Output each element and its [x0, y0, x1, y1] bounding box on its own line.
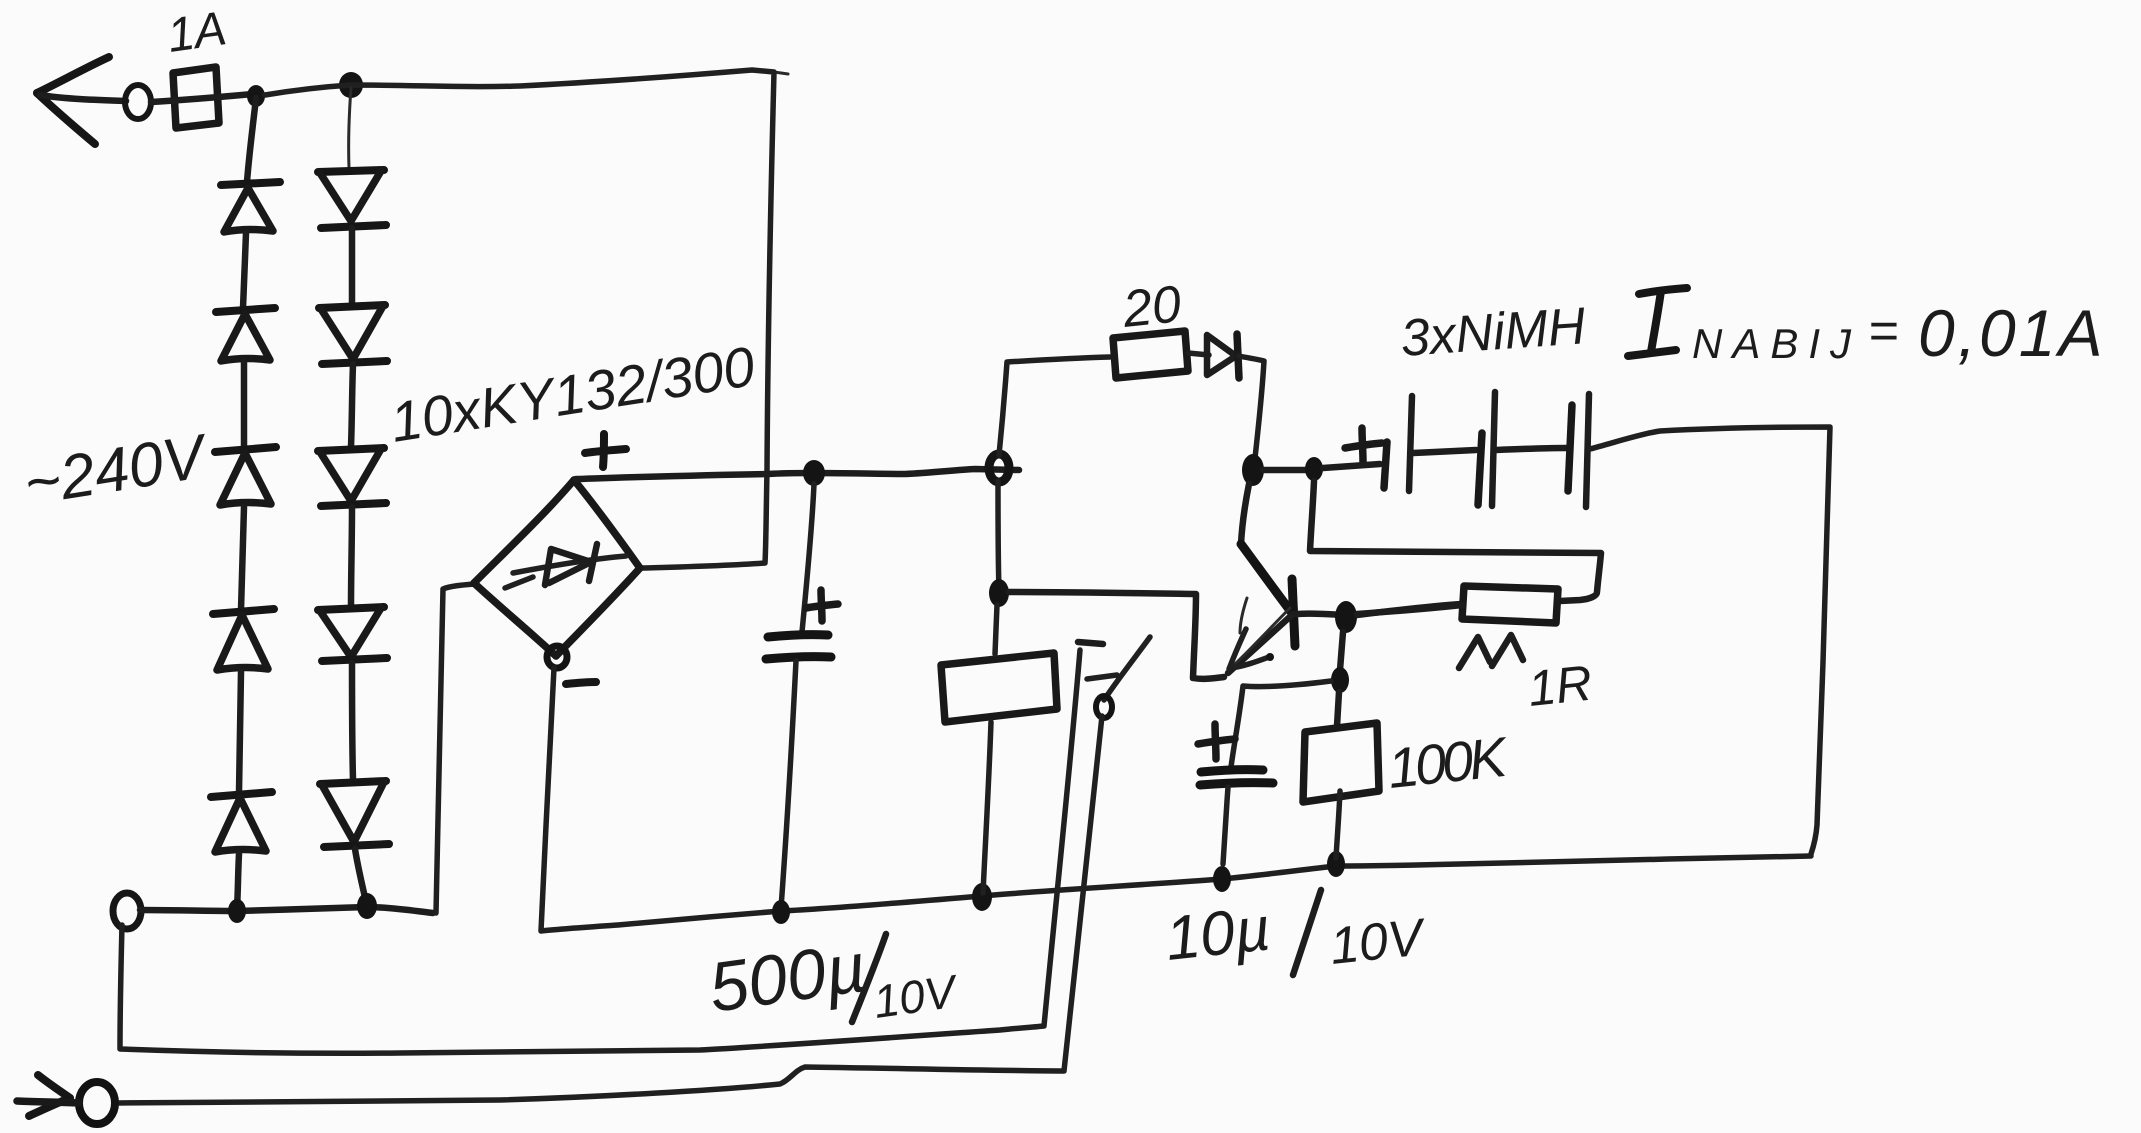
wire resistor to diode [1188, 353, 1209, 355]
resistor R2 11R [1357, 586, 1558, 623]
label - (bridge output) [566, 682, 596, 684]
terminal X3 (circle bottom-left) [79, 1082, 115, 1124]
node F (junction to 20-ohm loop and relay) [989, 454, 1009, 482]
diode D10 (right string) [320, 663, 389, 847]
wire bridge left vertex down to bottom wire [436, 584, 474, 913]
node B (junction top of right diode string) [339, 72, 363, 98]
svg-text:10µ: 10µ [1162, 894, 1273, 974]
wire base to node N [1297, 614, 1342, 615]
wire battery to right side loop [1590, 427, 1830, 854]
diode D8 (right string) [318, 364, 386, 506]
wire node N down to node O [1340, 632, 1343, 670]
diode D2 (left string) [216, 233, 275, 361]
diode D9 (right string) [318, 507, 387, 661]
svg-text:100K: 100K [1385, 725, 1512, 800]
wire relay branch down from node F [998, 481, 999, 590]
diode D5 (left string) [211, 672, 272, 852]
svg-text:1A: 1A [164, 2, 230, 63]
terminal X2 (circle bottom of diode strings) [113, 893, 141, 929]
terminal arrow top-left [37, 57, 126, 144]
diode D1 (left string) [221, 98, 280, 232]
label + (C1) [806, 590, 838, 621]
svg-text:NABIJ: NABIJ [1692, 320, 1861, 367]
capacitor C2 10u/10V [1200, 770, 1273, 864]
wire node O left to C2 [1231, 681, 1331, 767]
node H (battery plus junction) [1305, 457, 1323, 481]
wire DC+ rail from bridge to first junctions [576, 469, 1019, 479]
wire bottom line 1 (from terminal X2 down and right to switch) [120, 650, 1080, 1053]
switch S1 small dash [1087, 675, 1117, 679]
wire corner overshoot spur [774, 72, 788, 74]
wire D10 to bottom node [355, 849, 366, 902]
node J (relay minus on rail) [972, 883, 992, 911]
battery cell B3 [1496, 394, 1589, 507]
wire diode to right vertical down [1239, 356, 1264, 458]
resistor R1 20 [1113, 331, 1188, 378]
resistor R3 100K [1303, 723, 1379, 858]
diode D11 [1207, 334, 1239, 378]
wire node O to 100K [1337, 692, 1339, 726]
switch S1 pivot ring [1096, 696, 1112, 718]
svg-text:=: = [1868, 302, 1898, 360]
wire node G to battery node [1263, 467, 1308, 474]
wire 11R top branch from node H [1310, 481, 1601, 601]
label + (C2) [1198, 724, 1235, 759]
label 500u/10V (C1 value) [704, 928, 962, 1028]
wire bottom negative rail [541, 668, 1811, 931]
svg-text:1R: 1R [1525, 655, 1594, 717]
switch S1 lever [1104, 637, 1150, 700]
diode D6 (right string, pointing down) [318, 88, 386, 228]
diode D4 (left string) [213, 507, 274, 670]
node K (C2 minus on rail) [1213, 866, 1231, 892]
node I (C1 minus on rail) [772, 900, 790, 924]
battery cell B1 [1323, 396, 1412, 491]
relay coil K1 (box) [941, 605, 1057, 893]
wire top AC line to right then down to bridge [265, 70, 774, 568]
transistor Q1 collector wire [1241, 484, 1249, 544]
wire bottom of diode strings [140, 907, 433, 913]
wire bottom line 2 (from terminal X3 right and up to switch pivot) [117, 716, 1102, 1103]
terminal arrow bottom-left [17, 1075, 79, 1116]
node L (100K minus on rail) [1327, 851, 1345, 877]
node N (base junction) [1335, 601, 1357, 633]
wire base junction to 11R resistor [1357, 604, 1462, 615]
capacitor C1 500u/10V [766, 484, 831, 908]
diode D3 (left string) [215, 362, 276, 505]
label 11R arrows [1459, 635, 1523, 668]
node M (relay top junction) [989, 579, 1009, 607]
svg-text:10V: 10V [1327, 908, 1429, 976]
terminal X1 (circle) [125, 85, 151, 119]
bridge rectifier BR1 (diamond) [474, 480, 640, 656]
label + (battery) [1345, 428, 1382, 462]
svg-text:0,01A: 0,01A [1918, 296, 2105, 370]
wire 20-ohm loop left vertical [999, 357, 1110, 455]
node G (collector junction) [1242, 454, 1264, 486]
wire emitter return (node M right then down) [1009, 592, 1224, 679]
bridge minus node ring [547, 646, 567, 668]
svg-text:20: 20 [1119, 275, 1184, 339]
switch S1 fixed contact tick [1078, 642, 1103, 644]
wire D5 to bottom node [237, 854, 239, 908]
transistor Q1 [1228, 544, 1295, 673]
diode D7 (right string) [319, 228, 387, 364]
node O (cap/100K junction) [1331, 667, 1349, 693]
fuse F1 1A [151, 67, 253, 128]
node C (left string bottom) [228, 899, 246, 923]
label 10u/10V (C2 value) [1162, 890, 1429, 976]
battery cell B2 [1413, 392, 1495, 506]
node E (500u cap top junction) [803, 460, 825, 486]
node A (junction top of left diode string) [247, 85, 265, 107]
label + (bridge output) [585, 434, 626, 467]
label I_NABIJ = 0,01A [1628, 288, 2105, 370]
node D (right string bottom) [357, 893, 377, 919]
